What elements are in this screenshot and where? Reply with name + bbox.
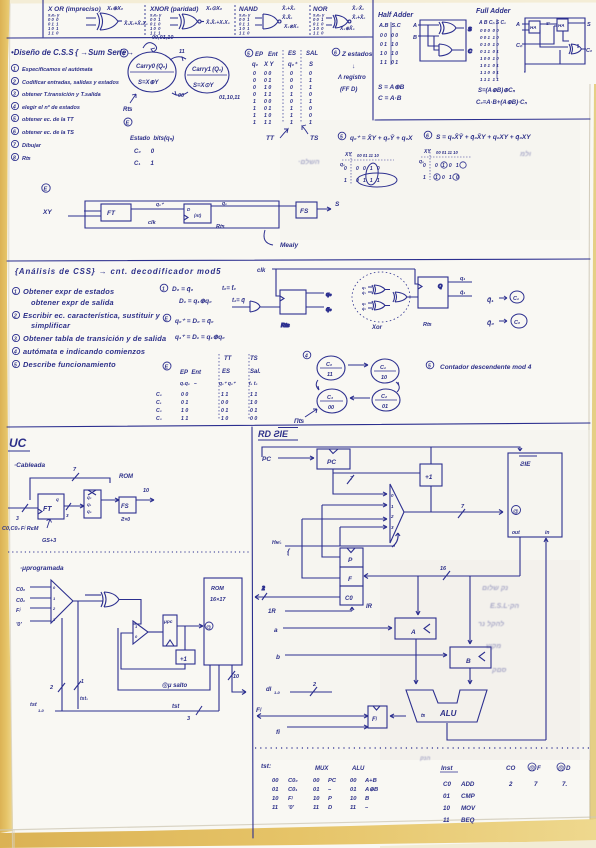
- svg-text:CO: CO: [506, 765, 515, 772]
- svg-text:q̄₀: q̄₀: [362, 306, 366, 311]
- equation step6: [424, 131, 432, 139]
- svg-text:X̄₁X₀+X̄₀X₁: X̄₁X₀+X̄₀X₁: [123, 20, 148, 27]
- step 4: [11, 102, 18, 109]
- transition table rows: [156, 392, 257, 422]
- and gate C: [439, 44, 464, 56]
- FF0 outputs: [306, 293, 324, 307]
- svg-text:C0₁: C0₁: [16, 598, 25, 604]
- svg-text:1 1: 1 1: [250, 392, 257, 398]
- svg-text:0: 0: [290, 85, 293, 91]
- svg-text:1 1 0: 1 1 0: [48, 31, 59, 36]
- b wire: [285, 653, 447, 657]
- svg-text:X̄₁+X̄₀: X̄₁+X̄₀: [281, 5, 295, 12]
- xor gate a: [372, 285, 390, 294]
- FT box: [38, 494, 64, 519]
- mux output wire: [404, 510, 503, 515]
- svg-text:1: 1: [290, 106, 293, 112]
- input wires: [68, 211, 101, 216]
- svg-text:q̄₀: q̄₀: [487, 319, 494, 327]
- svg-text:q₁: q₁: [87, 502, 92, 507]
- svg-text:6: 6: [13, 130, 16, 136]
- rule under section 1: [7, 259, 590, 261]
- equation step5: [338, 132, 346, 140]
- XOR gate symbol: [86, 13, 122, 30]
- F register box: [340, 567, 363, 586]
- a-step 3: [12, 334, 19, 341]
- FF1 outputs: [448, 282, 472, 296]
- svg-text:1 1: 1 1: [221, 392, 228, 398]
- svg-text:1-0: 1-0: [274, 690, 281, 695]
- svg-text:C = A·B: C = A·B: [378, 95, 402, 102]
- svg-text:clk: clk: [257, 268, 266, 274]
- svg-text:10: 10: [233, 674, 239, 680]
- svg-text:P: P: [348, 557, 353, 564]
- enclosure: [524, 18, 585, 72]
- svg-text:C0₀: C0₀: [16, 587, 25, 593]
- eq q0*: [163, 314, 171, 322]
- svg-text:1 1 0: 1 1 0: [313, 31, 324, 36]
- outer feedback rectangle: [85, 201, 279, 228]
- MUX top notch: [88, 490, 96, 495]
- svg-text:B: B: [365, 796, 369, 802]
- PC box: [317, 449, 350, 469]
- counter state diagram marker: [303, 351, 311, 359]
- svg-text:E: E: [44, 187, 48, 193]
- NOR gate symbol: [326, 15, 351, 28]
- svg-text:16×17: 16×17: [210, 597, 226, 603]
- svg-text:C0,C0₀ Fʲ RєM: C0,C0₀ Fʲ RєM: [2, 525, 39, 532]
- arrow C3 to C0: [316, 380, 319, 390]
- svg-text:ALU: ALU: [439, 709, 457, 718]
- paper shading: [250, 430, 590, 760]
- svg-text:11: 11: [272, 805, 278, 811]
- svg-text:5: 5: [340, 135, 343, 141]
- state C1: [371, 359, 399, 383]
- svg-text:5: 5: [13, 117, 16, 123]
- output arrow: [317, 207, 331, 211]
- svg-text:dl: dl: [266, 687, 272, 693]
- mux output wire: [73, 600, 103, 602]
- step 7: [11, 140, 18, 147]
- dashed separator: [144, 5, 146, 35]
- svg-text:2: 2: [261, 586, 265, 592]
- IR wire: [285, 607, 354, 611]
- svg-text:0 1: 0 1: [181, 400, 188, 406]
- Z estados note: [332, 48, 340, 56]
- svg-text:PC: PC: [328, 778, 337, 784]
- svg-text:6: 6: [334, 51, 337, 57]
- conclusion step5: [426, 361, 434, 369]
- svg-text:ES: ES: [222, 369, 230, 375]
- step 3: [11, 89, 18, 96]
- dashed table separators: [283, 50, 301, 122]
- svg-text:מקש: מקש: [486, 643, 501, 650]
- mux select arrow from below: [302, 533, 400, 547]
- svg-text:'0': '0': [16, 622, 22, 628]
- svg-text:μрс: μрс: [163, 620, 173, 625]
- svg-text:@: @: [206, 625, 211, 631]
- full adder circuit: [515, 18, 592, 72]
- slash on wire 2: [58, 683, 65, 692]
- svg-text:Xor: Xor: [371, 325, 383, 331]
- svg-text:00 01 11 10: 00 01 11 10: [436, 150, 458, 155]
- svg-text:1: 1: [290, 120, 293, 126]
- svg-text:Fʲ: Fʲ: [372, 716, 378, 723]
- xor gate b: [372, 301, 390, 310]
- svg-text:0 0 0 0 0: 0 0 0 0 0: [480, 28, 499, 33]
- svg-text:Rʦ: Rʦ: [423, 322, 432, 328]
- svg-text:ES: ES: [288, 51, 296, 57]
- svg-text:Rʦ: Rʦ: [22, 156, 31, 162]
- svg-text:0: 0: [309, 71, 312, 77]
- tst decode table: [261, 763, 298, 811]
- svg-text:C₀ 0: C₀ 0: [134, 149, 155, 155]
- svg-text:0 1 1 0 1: 0 1 1 0 1: [480, 49, 499, 54]
- flip-flop FF0: [280, 290, 306, 314]
- svg-text:obtener ec. de la TT: obtener ec. de la TT: [22, 117, 74, 123]
- svg-text:S: S: [309, 62, 313, 68]
- Inst underline: [440, 771, 458, 773]
- svg-text:Πʦ: Πʦ: [294, 418, 305, 425]
- svg-text:t₀= t̄₀: t₀= t̄₀: [222, 285, 237, 292]
- FS output arrow: [136, 498, 154, 502]
- svg-text:obtener ec. de la TS: obtener ec. de la TS: [22, 130, 74, 136]
- or gate c: [393, 292, 418, 302]
- svg-text:1: 1: [423, 175, 426, 181]
- svg-text:S: S: [335, 201, 340, 208]
- faint bleedthrough blobs: [298, 150, 531, 762]
- ALU output wire to in: [447, 538, 548, 740]
- svg-text:q₁: q₁: [460, 276, 465, 282]
- svg-text:C₁ 1: C₁ 1: [134, 161, 154, 167]
- marker E circled upper: [124, 118, 132, 126]
- svg-text:1 1: 1 1: [264, 120, 271, 126]
- state C3: [317, 389, 347, 413]
- svg-text:autómata e indicando comienzos: autómata e indicando comienzos: [23, 347, 145, 356]
- FF box: [184, 204, 211, 223]
- svg-text:7.: 7.: [562, 781, 567, 788]
- svg-text:0 1 1 0: 0 1 1 0: [380, 42, 398, 48]
- input slash: [22, 504, 28, 512]
- dl wire: [290, 691, 332, 693]
- transition table dashed separators: [219, 354, 249, 420]
- svg-text:q₂: q₂: [87, 495, 92, 500]
- svg-text:00,01,10: 00,01,10: [152, 35, 173, 41]
- svg-text:10: 10: [350, 796, 357, 802]
- svg-text:0: 0: [423, 163, 426, 169]
- arrow Carry1 back to Carry0: [172, 92, 188, 95]
- svg-text:FS: FS: [300, 208, 309, 215]
- svg-text:01: 01: [272, 787, 278, 793]
- svg-text:C₃: C₃: [156, 416, 162, 422]
- mux input 1 wire: [322, 503, 387, 557]
- svg-text:q₀: q₀: [222, 201, 227, 207]
- svg-text:D₀ = q̄₀: D₀ = q̄₀: [172, 285, 194, 293]
- FZ wire to UC: [257, 714, 368, 719]
- svg-text:4: 4: [121, 52, 125, 58]
- svg-text:1: 1: [290, 92, 293, 98]
- svg-text:FT: FT: [43, 506, 52, 513]
- svg-text:6: 6: [426, 134, 429, 140]
- svg-text:1: 1: [253, 120, 256, 126]
- at slash: [228, 671, 235, 680]
- svg-text:q₀: q₀: [326, 292, 332, 298]
- svg-text:S: S: [587, 22, 591, 28]
- svg-text:Full Adder: Full Adder: [476, 8, 512, 15]
- plus1 wires: [430, 447, 432, 512]
- svg-text:Carry1 (Q₁): Carry1 (Q₁): [192, 67, 223, 73]
- svg-text:10: 10: [313, 796, 320, 802]
- svg-text:Especificamos el autómata: Especificamos el autómata: [22, 67, 93, 73]
- FT clock arrow: [47, 519, 52, 528]
- PC output wire: [333, 469, 420, 496]
- svg-text:1 0: 1 0: [264, 113, 271, 119]
- input gate t0: [232, 301, 280, 312]
- svg-text:E: E: [126, 121, 130, 127]
- svg-text:•Diseño de C.S.S { →Sum Serie→: •Diseño de C.S.S { →Sum Serie→: [11, 48, 134, 57]
- fi wire: [287, 725, 368, 729]
- at port circle: [205, 622, 213, 630]
- half adder circuit: [418, 20, 473, 61]
- EP/ES/SAL table: [245, 49, 253, 57]
- svg-text:X₁⊗X₀: X₁⊗X₀: [283, 24, 299, 30]
- ROM box: [204, 578, 242, 665]
- address mux triangle: [390, 484, 404, 543]
- flip-flop FF1: [418, 277, 448, 308]
- svg-text:UC: UC: [9, 436, 27, 450]
- svg-text:PC: PC: [327, 459, 336, 466]
- svg-text:2: 2: [508, 781, 513, 788]
- NAND gate symbol: [255, 14, 281, 29]
- svg-text:ROM: ROM: [211, 586, 224, 592]
- mux input 3 wire: [340, 525, 387, 546]
- svg-text:1: 1: [309, 78, 312, 84]
- svg-text:{Análisis de CSS} → cnt. decod: {Análisis de CSS} → cnt. decodificador m…: [15, 267, 221, 276]
- EIE title overline: [519, 455, 537, 457]
- svg-text:00: 00: [313, 778, 320, 784]
- svg-text:FS: FS: [121, 504, 129, 510]
- svg-text:FT: FT: [107, 210, 116, 217]
- P register box: [340, 548, 363, 567]
- tst slash: [196, 706, 202, 715]
- svg-text:00: 00: [178, 93, 184, 99]
- svg-text:C0₁: C0₁: [288, 787, 297, 793]
- clk wire: [272, 269, 418, 296]
- svg-text:Mealy: Mealy: [280, 242, 298, 249]
- transition table marker: [163, 362, 171, 370]
- ALU flag wire to FZ: [390, 714, 406, 718]
- svg-text:Dibujar: Dibujar: [22, 143, 42, 149]
- svg-text:4: 4: [12, 105, 16, 111]
- FS box: [296, 202, 317, 218]
- svg-text:(FF D): (FF D): [340, 87, 357, 93]
- paper top pale edge: [10, 0, 596, 4]
- svg-text:01: 01: [350, 787, 356, 793]
- rule under adders block: [375, 119, 590, 120]
- svg-text:q̄₁: q̄₁: [487, 296, 494, 304]
- svg-text:q₁⁺ = D₁ = q₁⊕q₀: q₁⁺ = D₁ = q₁⊕q₀: [175, 334, 225, 341]
- svg-text:q̄₀: q̄₀: [326, 307, 332, 313]
- state bubble Carry0: [128, 52, 176, 92]
- svg-text:0 0 1 1 0: 0 0 1 1 0: [480, 35, 499, 40]
- svg-text:XY: XY: [42, 209, 52, 216]
- svg-text:C₃: C₃: [327, 395, 333, 401]
- svg-text:BEQ: BEQ: [461, 817, 475, 824]
- step 5: [11, 114, 18, 121]
- svg-text:fi: fi: [276, 729, 280, 736]
- svg-text:1 1 0: 1 1 0: [239, 31, 250, 36]
- svg-text:EP Ent: EP Ent: [180, 370, 202, 376]
- svg-text:A⊕B: A⊕B: [364, 787, 378, 793]
- dl slash: [310, 687, 317, 696]
- svg-text:5: 5: [247, 52, 250, 58]
- svg-text:C₀: C₀: [326, 362, 332, 368]
- svg-text:(nt): (nt): [194, 213, 202, 218]
- arrow Carry0 to Carry1: [170, 57, 186, 60]
- svg-text:C₂: C₂: [156, 408, 162, 414]
- svg-text:Codificar entradas, salidas y: Codificar entradas, salidas y estados: [22, 80, 119, 86]
- svg-text:HA: HA: [530, 25, 537, 30]
- vertical line left of gate row: [42, 0, 44, 37]
- svg-text:1: 1: [290, 113, 293, 119]
- EIE memory box: [508, 453, 562, 537]
- svg-text:3: 3: [16, 516, 19, 522]
- svg-text:01,10,11: 01,10,11: [219, 95, 240, 101]
- svg-text:in: in: [545, 530, 549, 536]
- svg-text:0 1 0 1 0: 0 1 0 1 0: [480, 42, 499, 47]
- usalto feedback loop: [118, 628, 210, 690]
- svg-text:HA: HA: [558, 23, 565, 28]
- A to ALU wire: [414, 639, 418, 684]
- svg-text:1: 1: [253, 106, 256, 112]
- at out arrow: [232, 684, 246, 695]
- svg-text:1 0 0 1 0: 1 0 0 1 0: [480, 56, 499, 61]
- svg-text:0 0: 0 0: [250, 416, 257, 422]
- svg-text:1 1: 1 1: [264, 92, 271, 98]
- svg-text:C₀: C₀: [156, 392, 162, 398]
- svg-text:obtener T.transición y T.salid: obtener T.transición y T.salida: [22, 92, 101, 98]
- svg-text:1: 1: [162, 287, 165, 293]
- rule under top gate row: [7, 37, 372, 38]
- tst output vertical: [218, 665, 220, 711]
- B register box: [450, 647, 491, 668]
- svg-text:1: 1: [81, 679, 84, 685]
- svg-text:Cₙ: Cₙ: [516, 43, 523, 49]
- svg-text:1 0: 1 0: [264, 85, 271, 91]
- svg-text:ולמ: ולמ: [519, 150, 531, 158]
- dashed separator: [309, 5, 311, 35]
- HA box 1: [529, 21, 540, 33]
- svg-text:10: 10: [381, 375, 387, 381]
- wire FT to FF: [131, 208, 184, 210]
- a-step 5: [12, 360, 19, 367]
- svg-text:5: 5: [428, 364, 431, 370]
- plus1 tap: [184, 626, 186, 650]
- vertical divider UC / RD: [252, 427, 253, 838]
- svg-text:1: 1: [309, 99, 312, 105]
- svg-text:elegir el nº de estados: elegir el nº de estados: [22, 104, 80, 111]
- PC input arrow: [278, 456, 314, 460]
- svg-text:+1: +1: [425, 474, 433, 481]
- xor output wire down to upc mux: [119, 600, 141, 625]
- svg-text:1: 1: [344, 178, 347, 184]
- step 8: [11, 153, 18, 160]
- tst mux triangle: [51, 580, 73, 623]
- svg-text:00: 00: [328, 405, 334, 411]
- full adder table rule: [496, 19, 498, 79]
- MUX to FS wire: [101, 498, 119, 502]
- xor gate: [101, 592, 119, 607]
- svg-text:out: out: [512, 530, 520, 536]
- CO register box: [340, 586, 363, 605]
- svg-text:00 01 11 10: 00 01 11 10: [357, 153, 379, 158]
- svg-text:0 1: 0 1: [250, 408, 257, 414]
- svg-text:C₁: C₁: [156, 400, 162, 406]
- svg-text:A+B: A+B: [364, 778, 377, 784]
- svg-text:@: @: [529, 765, 535, 772]
- svg-text:tst:: tst:: [261, 763, 271, 770]
- drop wire to A: [416, 576, 420, 615]
- svg-text:7: 7: [534, 781, 538, 788]
- svg-text:TT: TT: [266, 135, 275, 142]
- svg-text:01: 01: [382, 404, 388, 410]
- svg-text:0: 0: [309, 92, 312, 98]
- backdrop bottom band: [0, 819, 596, 848]
- svg-text:X̄₁X̄₀: X̄₁X̄₀: [281, 14, 292, 21]
- bus slash 16: [443, 571, 450, 580]
- drop wire to B: [468, 576, 472, 644]
- TS map circled ones: [441, 162, 447, 168]
- eq D0: [160, 284, 168, 292]
- step 1: [11, 64, 18, 71]
- transition table headers: [180, 356, 261, 387]
- bus slash on feedback: [72, 473, 79, 481]
- svg-text:obtener expr de salida: obtener expr de salida: [31, 298, 114, 307]
- svg-text:1: 1: [309, 85, 312, 91]
- svg-text:0 1: 0 1: [264, 78, 271, 84]
- svg-text:Inst: Inst: [441, 765, 453, 772]
- svg-text:tst: tst: [30, 702, 38, 708]
- svg-text:Half Adder: Half Adder: [378, 12, 414, 19]
- MUX narrow box: [84, 490, 101, 518]
- svg-text:X̄₁X̄₀+X₁X₀: X̄₁X̄₀+X₁X₀: [205, 19, 230, 26]
- at port of EIE: [512, 506, 521, 515]
- svg-text:להקל נר: להקל נר: [478, 620, 504, 628]
- svg-text:1 0: 1 0: [221, 416, 228, 422]
- svg-text:0 1: 0 1: [221, 408, 228, 414]
- width 7 slash pc: [347, 475, 354, 484]
- xor upper input stub: [85, 594, 101, 596]
- svg-text:GS+3: GS+3: [42, 538, 56, 544]
- svg-text:1 1 0 1: 1 1 0 1: [380, 60, 398, 66]
- svg-text:1: 1: [253, 99, 256, 105]
- svg-text:·Cableada: ·Cableada: [14, 462, 45, 469]
- tst bus: [55, 710, 219, 712]
- Inst table: [441, 765, 476, 824]
- svg-text:X̄₁·X̄₀: X̄₁·X̄₀: [351, 5, 364, 12]
- svg-text:Carry0 (Q₀): Carry0 (Q₀): [136, 64, 167, 70]
- svg-text:C₀=A·B+(A⊕B)·Cₙ: C₀=A·B+(A⊕B)·Cₙ: [476, 100, 527, 106]
- svg-text:Rʦ: Rʦ: [216, 224, 225, 230]
- svg-text:Describe funcionamiento: Describe funcionamiento: [23, 360, 116, 369]
- svg-text:3: 3: [14, 337, 17, 343]
- paper bottom edge shadow: [0, 817, 596, 830]
- svg-text:·μprogramada: ·μprogramada: [20, 565, 64, 572]
- svg-text:3: 3: [13, 92, 16, 98]
- svg-text:q̄₁: q̄₁: [460, 290, 465, 296]
- svg-text:הנק: הנק: [419, 756, 430, 762]
- svg-text:@: @: [558, 765, 564, 772]
